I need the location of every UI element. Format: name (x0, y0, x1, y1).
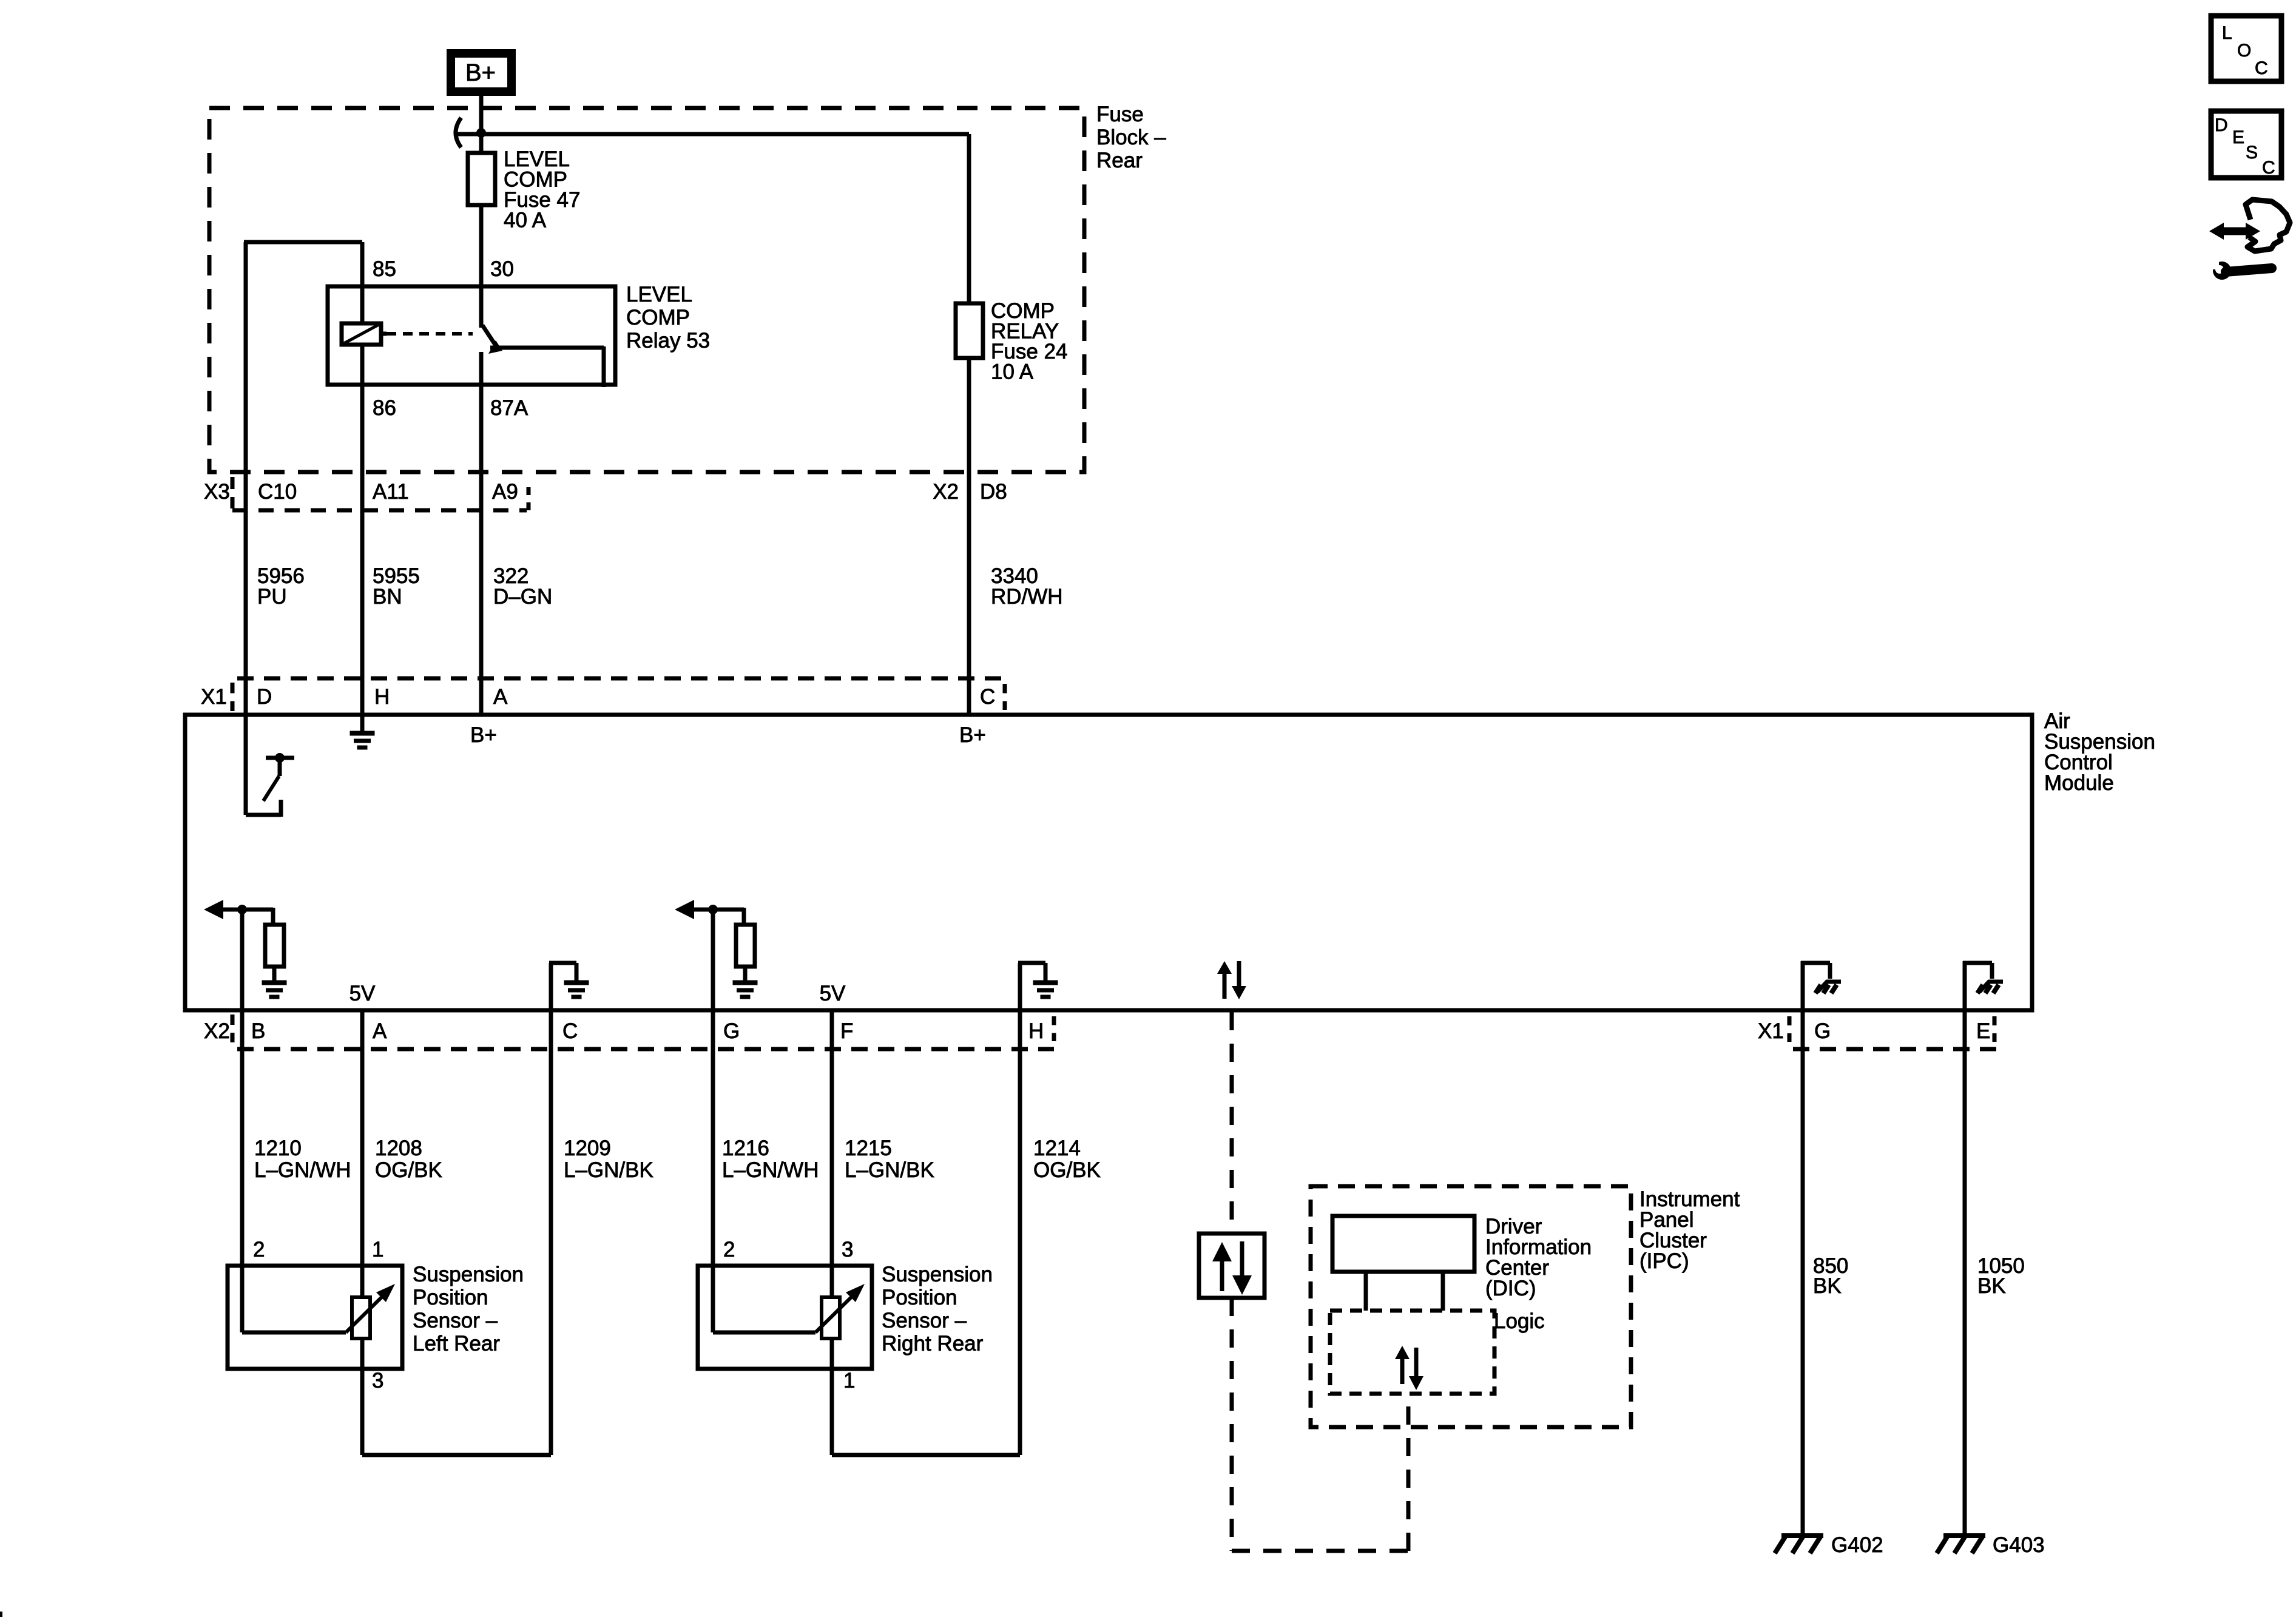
svg-text:5V: 5V (349, 982, 376, 1005)
svg-text:1215: 1215 (845, 1136, 892, 1160)
svg-text:A9: A9 (492, 480, 518, 504)
svg-text:BK: BK (1977, 1274, 2006, 1298)
svg-text:D8: D8 (980, 480, 1007, 504)
svg-text:D: D (2215, 115, 2228, 135)
svg-text:1216: 1216 (722, 1136, 769, 1160)
svg-text:L: L (2222, 23, 2232, 43)
svg-text:COMP: COMP (626, 306, 690, 329)
svg-text:C: C (2262, 158, 2275, 178)
svg-text:LEVEL: LEVEL (626, 283, 692, 306)
svg-text:X1: X1 (1758, 1019, 1784, 1043)
svg-text:30: 30 (490, 257, 514, 281)
svg-text:H: H (374, 685, 390, 709)
svg-text:Block –: Block – (1096, 126, 1166, 149)
svg-text:X1: X1 (201, 685, 227, 709)
svg-text:RD/WH: RD/WH (991, 585, 1063, 609)
svg-text:OG/BK: OG/BK (1033, 1158, 1101, 1182)
svg-text:X3: X3 (204, 480, 230, 504)
svg-text:L–GN/BK: L–GN/BK (845, 1158, 934, 1182)
svg-text:Suspension: Suspension (882, 1263, 993, 1286)
svg-text:L–GN/WH: L–GN/WH (722, 1158, 819, 1182)
svg-text:B: B (251, 1019, 265, 1043)
svg-text:87A: 87A (490, 396, 528, 420)
svg-text:BK: BK (1813, 1274, 1842, 1298)
svg-text:Suspension: Suspension (413, 1263, 524, 1286)
svg-text:Relay 53: Relay 53 (626, 329, 710, 353)
svg-text:40 A: 40 A (504, 209, 547, 232)
svg-text:A: A (493, 685, 508, 709)
svg-text:A11: A11 (373, 480, 409, 504)
svg-text:X2: X2 (933, 480, 959, 504)
svg-text:A: A (373, 1019, 387, 1043)
svg-text:10 A: 10 A (991, 360, 1034, 384)
svg-text:2: 2 (253, 1238, 265, 1261)
svg-text:5V: 5V (820, 982, 846, 1005)
svg-text:H: H (1028, 1019, 1044, 1043)
svg-text:Module: Module (2044, 771, 2114, 795)
svg-text:Logic: Logic (1494, 1309, 1545, 1333)
svg-text:(DIC): (DIC) (1485, 1277, 1536, 1300)
svg-text:86: 86 (373, 396, 396, 420)
svg-text:B+: B+ (470, 723, 497, 747)
svg-text:3: 3 (842, 1238, 853, 1261)
svg-text:Position: Position (882, 1286, 957, 1309)
svg-text:Sensor –: Sensor – (882, 1309, 967, 1332)
svg-text:Rear: Rear (1096, 149, 1143, 172)
svg-text:G: G (723, 1019, 740, 1043)
svg-text:1209: 1209 (564, 1136, 611, 1160)
svg-text:C: C (562, 1019, 578, 1043)
svg-text:S: S (2246, 143, 2258, 163)
svg-text:O: O (2237, 41, 2251, 61)
svg-text:B+: B+ (465, 59, 496, 86)
svg-text:(IPC): (IPC) (1639, 1249, 1689, 1273)
svg-text:G: G (1814, 1019, 1831, 1043)
svg-text:BN: BN (373, 585, 402, 609)
svg-text:D–GN: D–GN (493, 585, 552, 609)
svg-text:Left Rear: Left Rear (413, 1332, 500, 1355)
svg-text:Fuse: Fuse (1096, 103, 1144, 126)
svg-text:L–GN/BK: L–GN/BK (564, 1158, 653, 1182)
svg-text:C: C (2255, 58, 2268, 78)
svg-text:G402: G402 (1831, 1533, 1883, 1557)
svg-text:PU: PU (257, 585, 287, 609)
svg-text:F: F (840, 1019, 853, 1043)
svg-text:OG/BK: OG/BK (375, 1158, 442, 1182)
svg-text:C: C (980, 685, 995, 709)
svg-text:D: D (257, 685, 272, 709)
svg-text:G403: G403 (1993, 1533, 2045, 1557)
svg-text:1: 1 (843, 1369, 855, 1393)
svg-text:C10: C10 (258, 480, 297, 504)
svg-text:1210: 1210 (254, 1136, 302, 1160)
svg-text:85: 85 (373, 257, 396, 281)
svg-text:3: 3 (372, 1369, 383, 1393)
svg-text:Position: Position (413, 1286, 488, 1309)
svg-text:Right Rear: Right Rear (882, 1332, 984, 1355)
svg-text:E: E (2232, 127, 2244, 147)
svg-text:B+: B+ (959, 723, 986, 747)
svg-text:1208: 1208 (375, 1136, 422, 1160)
svg-text:E: E (1976, 1019, 1990, 1043)
svg-text:1214: 1214 (1033, 1136, 1081, 1160)
svg-text:X2: X2 (204, 1019, 230, 1043)
svg-text:1: 1 (372, 1238, 383, 1261)
svg-text:2: 2 (723, 1238, 735, 1261)
svg-text:L–GN/WH: L–GN/WH (254, 1158, 351, 1182)
svg-text:Sensor –: Sensor – (413, 1309, 498, 1332)
